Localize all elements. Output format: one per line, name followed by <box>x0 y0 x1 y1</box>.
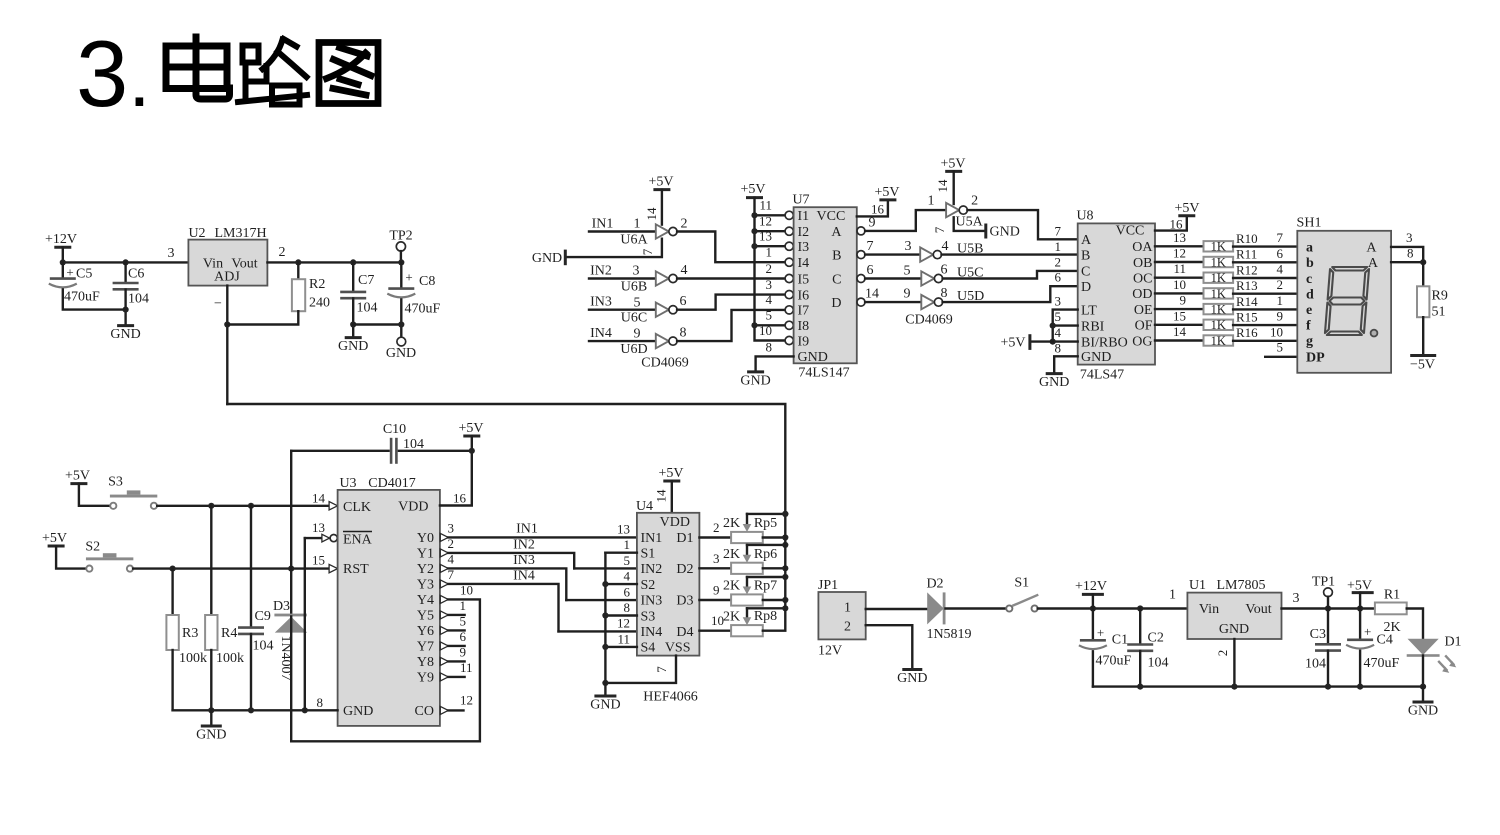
junction Rp5 wiper <box>782 511 788 517</box>
capacitor C4 plates <box>1346 640 1374 649</box>
U7 input bubble y=294.6 <box>785 291 793 299</box>
wire <box>763 536 786 538</box>
svg-text:RBI: RBI <box>1081 319 1105 334</box>
svg-text:4: 4 <box>1055 325 1062 340</box>
svg-text:I2: I2 <box>798 225 810 240</box>
svg-text:14: 14 <box>312 491 326 506</box>
wire <box>1155 324 1204 326</box>
svg-text:U1: U1 <box>1189 578 1206 593</box>
svg-text:2K: 2K <box>723 609 740 624</box>
svg-text:C6: C6 <box>128 267 144 282</box>
svg-text:5: 5 <box>904 264 911 279</box>
svg-text:I3: I3 <box>798 240 810 255</box>
IC U8 74LS47 body <box>1078 223 1155 364</box>
svg-text:IN1: IN1 <box>641 531 663 546</box>
svg-text:1K: 1K <box>1211 255 1226 269</box>
svg-text:A: A <box>1366 241 1377 256</box>
svg-text:C: C <box>832 272 841 287</box>
junction D1 bottom <box>1420 684 1426 690</box>
wire C2 bottom lead <box>1139 651 1141 687</box>
wire Rp6 wiper to rail <box>747 544 785 546</box>
diode D2 1N5819 <box>927 592 945 624</box>
svg-text:Rp5: Rp5 <box>754 516 777 531</box>
svg-text:OC: OC <box>1133 272 1152 287</box>
svg-text:9: 9 <box>904 287 911 302</box>
svg-text:Rp7: Rp7 <box>754 579 777 594</box>
wire S2 left lead <box>56 546 86 569</box>
svg-text:d: d <box>1306 288 1314 303</box>
wire <box>1233 639 1235 687</box>
svg-text:3: 3 <box>766 277 773 292</box>
svg-text:+5V: +5V <box>874 185 899 200</box>
Rp7 wiper arm <box>743 577 752 594</box>
svg-text:C7: C7 <box>358 273 374 288</box>
pin arrow Y9 <box>440 673 448 681</box>
svg-text:TP1: TP1 <box>1312 575 1335 590</box>
resistor R13 1K body <box>1204 288 1234 298</box>
wire C7 bottom lead <box>352 298 354 337</box>
wire U7 rail to input row y=231.2 <box>755 230 786 232</box>
wire U5A VCC stem <box>953 171 955 204</box>
junction ADJ/R2 <box>224 321 230 327</box>
Rp6 wiper arm <box>743 545 752 563</box>
pin arrow Y4 <box>440 595 448 603</box>
resistor R2 body <box>292 279 305 311</box>
svg-text:12V: 12V <box>818 644 842 659</box>
inverter U5C <box>921 271 942 285</box>
svg-text:C8: C8 <box>419 274 435 289</box>
wire C7 top lead <box>352 262 354 291</box>
wire C9 bottom lead <box>250 634 252 710</box>
wire U7 rail to input row y=325.3 <box>755 324 786 326</box>
power +5V above S2 <box>42 531 67 546</box>
power +12V (section A) <box>45 232 77 247</box>
svg-text:8: 8 <box>317 695 324 710</box>
wire C8 top lead <box>400 262 402 288</box>
wire IN4 into pin <box>559 630 637 632</box>
svg-text:2: 2 <box>844 619 851 634</box>
junction on U7 rail <box>751 212 757 218</box>
wire C10 left <box>291 450 388 452</box>
svg-text:GND: GND <box>1039 375 1069 390</box>
svg-text:+: + <box>66 265 73 280</box>
svg-text:2K: 2K <box>723 516 740 531</box>
svg-text:4: 4 <box>624 569 631 584</box>
svg-text:S2: S2 <box>85 540 100 555</box>
svg-text:1: 1 <box>1277 293 1284 308</box>
wire <box>763 514 786 631</box>
svg-text:3: 3 <box>633 264 640 279</box>
svg-text:LT: LT <box>1081 303 1097 318</box>
potentiometer Rp5 body <box>731 532 763 543</box>
wire C4 bottom lead <box>1359 651 1361 687</box>
svg-text:C5: C5 <box>76 267 92 282</box>
wire <box>440 436 472 506</box>
junction Rp8 wiper <box>782 605 788 611</box>
svg-text:1N4007: 1N4007 <box>278 635 293 680</box>
wire <box>1233 277 1297 279</box>
svg-text:1: 1 <box>1055 239 1062 254</box>
svg-text:3: 3 <box>1293 591 1300 606</box>
resistor R16 1K body <box>1204 335 1234 345</box>
svg-text:+5V: +5V <box>458 421 483 436</box>
power +5V above U5A <box>940 157 965 172</box>
svg-text:1K: 1K <box>1211 287 1226 301</box>
wire U4 VDD stem <box>671 481 673 513</box>
svg-text:CD4017: CD4017 <box>368 476 415 491</box>
stub Y5 <box>448 614 464 616</box>
wire <box>604 683 606 696</box>
svg-text:+5V: +5V <box>1174 201 1199 216</box>
wire <box>699 567 731 569</box>
svg-text:f: f <box>1306 318 1311 333</box>
wire <box>1155 261 1204 263</box>
svg-text:+: + <box>1097 625 1104 640</box>
wire <box>1233 261 1297 263</box>
title hanzi DIAN (electric) <box>166 37 230 99</box>
junction C5/C6 bottom <box>123 307 129 313</box>
svg-text:R16: R16 <box>1236 325 1258 340</box>
svg-text:U7: U7 <box>792 193 809 208</box>
svg-text:BI/RBO: BI/RBO <box>1081 335 1128 350</box>
svg-text:9: 9 <box>869 216 876 231</box>
svg-text:c: c <box>1306 272 1312 287</box>
svg-text:2K: 2K <box>723 579 740 594</box>
svg-text:R4: R4 <box>221 626 237 641</box>
resistor R4 body <box>205 615 217 650</box>
junction S2 <box>602 581 608 587</box>
svg-text:7: 7 <box>1277 230 1284 245</box>
svg-text:8: 8 <box>941 286 948 301</box>
svg-text:S3: S3 <box>641 609 656 624</box>
junction C3 bottom <box>1325 684 1331 690</box>
wire U7 rail to input row y=215.3 <box>755 214 786 216</box>
svg-text:104: 104 <box>1148 656 1169 671</box>
svg-text:1: 1 <box>844 600 851 615</box>
power +5V at U7 VCC <box>874 185 899 200</box>
svg-text:1K: 1K <box>1211 318 1226 332</box>
svg-text:16: 16 <box>871 202 885 217</box>
ground under U4 <box>590 696 620 713</box>
svg-text:2: 2 <box>681 217 688 232</box>
wire <box>1155 308 1204 310</box>
svg-text:−: − <box>214 297 222 312</box>
pin arrow CO <box>440 706 448 714</box>
svg-text:IN3: IN3 <box>590 295 612 310</box>
svg-text:U6A: U6A <box>620 233 648 248</box>
svg-text:2K: 2K <box>1383 620 1400 635</box>
svg-text:LM317H: LM317H <box>214 226 266 241</box>
wire strap to +5V tick <box>1031 340 1053 342</box>
svg-text:VCC: VCC <box>1116 224 1145 239</box>
svg-text:U3: U3 <box>339 476 356 491</box>
wire +5V stem <box>1359 593 1361 609</box>
svg-text:1: 1 <box>1169 588 1176 603</box>
wire <box>943 271 1078 279</box>
svg-text:2: 2 <box>1215 650 1230 657</box>
svg-text:R12: R12 <box>1236 262 1258 277</box>
svg-text:2: 2 <box>279 245 286 260</box>
svg-text:Y3: Y3 <box>417 578 434 593</box>
wire <box>1282 607 1375 609</box>
svg-text:U8: U8 <box>1076 209 1093 224</box>
svg-text:10: 10 <box>1270 324 1283 339</box>
svg-text:GND: GND <box>386 346 416 361</box>
svg-text:GND: GND <box>897 671 927 686</box>
svg-text:104: 104 <box>1305 657 1326 672</box>
wire <box>589 277 656 279</box>
test point TP2 <box>396 242 405 251</box>
svg-text:4: 4 <box>681 263 688 278</box>
wire <box>291 599 480 741</box>
wire <box>1391 247 1423 262</box>
wire U7 rail to input row y=246.2 <box>755 245 786 247</box>
wire <box>942 253 1078 255</box>
svg-text:+5V: +5V <box>648 175 673 190</box>
svg-text:8: 8 <box>1407 246 1414 261</box>
wire <box>1233 293 1297 295</box>
wire R9 top lead <box>1422 262 1424 286</box>
potentiometer Rp6 body <box>731 563 763 574</box>
resistor R9 body <box>1417 286 1429 317</box>
capacitor C7 plates <box>340 292 366 298</box>
wire S2 to U3 RST <box>133 567 329 569</box>
wire <box>1155 245 1204 247</box>
U7 output bubble y=278.5 <box>857 275 865 283</box>
svg-text:14: 14 <box>935 179 950 193</box>
pin arrow Y1 <box>440 549 448 557</box>
svg-text:5: 5 <box>634 296 641 311</box>
wire Rp5 wiper to rail <box>747 513 785 515</box>
svg-text:1: 1 <box>634 217 641 232</box>
potentiometer Rp7 body <box>731 594 763 605</box>
svg-text:2: 2 <box>1055 254 1062 269</box>
svg-text:IN3: IN3 <box>641 594 663 609</box>
pin arrow ENA <box>322 534 330 542</box>
svg-text:74LS147: 74LS147 <box>798 366 849 381</box>
junction Rp7 terminal <box>782 597 788 603</box>
svg-text:14: 14 <box>865 287 879 302</box>
svg-text:GND: GND <box>343 704 373 719</box>
svg-text:9: 9 <box>713 583 720 598</box>
junction VSS/S rail <box>602 680 608 686</box>
svg-text:I1: I1 <box>798 209 810 224</box>
svg-text:R2: R2 <box>309 277 325 292</box>
power +5V (PSU) <box>1347 579 1374 594</box>
svg-text:16: 16 <box>453 491 467 506</box>
svg-text:GND: GND <box>1081 350 1111 365</box>
wire <box>967 210 1077 239</box>
wire <box>677 310 785 341</box>
svg-text:2: 2 <box>971 194 978 209</box>
svg-text:a: a <box>1306 241 1313 256</box>
wire C6 top lead <box>124 262 126 282</box>
svg-text:12: 12 <box>1173 246 1186 261</box>
junction Rp5 terminal <box>782 534 788 540</box>
svg-text:D3: D3 <box>273 599 290 614</box>
svg-text:Y4: Y4 <box>417 593 434 608</box>
svg-text:I5: I5 <box>798 272 810 287</box>
wire R3 top lead <box>171 569 173 615</box>
wire <box>677 295 785 310</box>
svg-text:3: 3 <box>713 551 720 566</box>
wire <box>589 230 656 232</box>
svg-text:104: 104 <box>128 292 149 307</box>
svg-text:I8: I8 <box>798 319 810 334</box>
wire <box>946 607 1007 609</box>
svg-text:S1: S1 <box>1014 576 1029 591</box>
svg-text:R10: R10 <box>1236 231 1258 246</box>
junction R4 top <box>208 503 214 509</box>
svg-text:I4: I4 <box>798 256 810 271</box>
svg-text:3: 3 <box>1055 294 1062 309</box>
junction BI/RBO strap <box>1050 339 1056 345</box>
U7 output bubble y=230.9 <box>857 227 865 235</box>
wire R9 bottom lead <box>1422 317 1424 355</box>
svg-text:Y9: Y9 <box>417 671 434 686</box>
svg-text:b: b <box>1306 256 1314 271</box>
svg-text:CO: CO <box>415 704 434 719</box>
wire <box>699 536 731 538</box>
U7 input bubble y=215.3 <box>785 211 793 219</box>
svg-text:GND: GND <box>798 350 828 365</box>
svg-text:15: 15 <box>312 553 325 568</box>
wire C1 bottom lead <box>1092 651 1094 686</box>
svg-text:GND: GND <box>1408 704 1438 719</box>
U7 input bubble y=262.2 <box>785 258 793 266</box>
wire C5 top lead <box>62 262 64 278</box>
svg-text:104: 104 <box>357 301 378 316</box>
wire +12V stem <box>62 247 64 262</box>
wire <box>1155 216 1187 231</box>
svg-text:14: 14 <box>644 207 659 221</box>
wire C7-C8 bottom tie <box>353 323 401 325</box>
svg-text:7: 7 <box>867 239 874 254</box>
svg-text:470uF: 470uF <box>1364 656 1400 671</box>
svg-text:OE: OE <box>1134 303 1153 318</box>
svg-text:+5V: +5V <box>1000 335 1025 350</box>
svg-text:D4: D4 <box>676 625 693 640</box>
stub Y6 <box>448 629 464 631</box>
svg-text:S1: S1 <box>641 547 656 562</box>
svg-text:IN3: IN3 <box>513 553 535 568</box>
ground under D1 <box>1408 702 1438 719</box>
wire R4 top lead <box>210 506 212 615</box>
wire <box>756 356 794 371</box>
connector JP1 body <box>818 592 865 639</box>
power +5V above U4 <box>658 466 683 481</box>
stub Y9 <box>448 676 464 678</box>
wire <box>567 239 662 257</box>
svg-text:ADJ: ADJ <box>214 270 240 285</box>
wire D3 anode down <box>290 616 292 741</box>
stub CO <box>448 709 463 711</box>
junction +12V node <box>1090 605 1096 611</box>
capacitor C2 plates <box>1127 645 1153 651</box>
wire R4 bottom lead <box>210 650 212 710</box>
wire ENA lead <box>305 537 322 539</box>
wire Rp8 wiper to rail <box>747 607 785 609</box>
svg-text:IN2: IN2 <box>513 538 535 553</box>
wire S rail vertical <box>604 553 606 683</box>
svg-text:6: 6 <box>1277 246 1284 261</box>
wire <box>589 309 656 311</box>
svg-text:+5V: +5V <box>658 466 683 481</box>
svg-text:1: 1 <box>624 537 631 552</box>
junction Rp7 wiper <box>782 574 788 580</box>
svg-text:6: 6 <box>680 294 687 309</box>
+5V tick for U8 BI/RBO <box>1028 334 1031 350</box>
wire R3 bottom lead <box>171 650 173 710</box>
svg-text:VSS: VSS <box>665 641 691 656</box>
ground JP1 pin2 <box>897 670 927 687</box>
svg-text:D3: D3 <box>676 594 693 609</box>
wire <box>1233 340 1297 342</box>
wire C10 right <box>399 450 472 452</box>
svg-text:D2: D2 <box>926 577 943 592</box>
wire <box>1155 277 1204 279</box>
switch S1 <box>1006 595 1038 612</box>
svg-text:U2: U2 <box>188 226 205 241</box>
svg-text:+5V: +5V <box>1347 579 1372 594</box>
inverter U6C <box>656 303 677 317</box>
wire S3 left lead <box>79 484 110 506</box>
wire gnd stem <box>210 710 212 726</box>
wire RBI <box>1053 324 1078 326</box>
wire <box>699 630 731 632</box>
junction C6 top <box>123 259 129 265</box>
wire <box>1422 687 1424 701</box>
svg-text:C: C <box>1081 265 1090 280</box>
svg-text:11: 11 <box>617 631 630 646</box>
svg-text:13: 13 <box>617 522 630 537</box>
svg-text:VCC: VCC <box>817 209 846 224</box>
svg-text:Y0: Y0 <box>417 531 434 546</box>
wire IN3 into pin <box>566 599 637 601</box>
svg-text:Y6: Y6 <box>417 624 434 639</box>
resistor R11 1K body <box>1204 257 1234 267</box>
svg-text:+5V: +5V <box>65 469 90 484</box>
inverter U6B <box>656 271 677 285</box>
wire <box>1038 607 1188 609</box>
wire C2 top lead <box>1139 609 1141 645</box>
wire TP2 stem <box>400 251 402 262</box>
svg-text:6: 6 <box>1055 270 1062 285</box>
wire <box>448 568 566 600</box>
stub Y7 <box>448 645 464 647</box>
U7 input bubble y=246.2 <box>785 242 793 250</box>
svg-text:e: e <box>1306 303 1312 318</box>
svg-text:470uF: 470uF <box>1096 654 1132 669</box>
inverter U5A <box>946 203 967 217</box>
wire <box>865 253 920 255</box>
wire TP1 stem <box>1327 597 1329 609</box>
svg-text:13: 13 <box>312 520 325 535</box>
power +5V at U3 VDD <box>458 421 483 436</box>
svg-text:10: 10 <box>1173 277 1186 292</box>
junction C8 top <box>398 259 404 265</box>
capacitor C1 plates <box>1079 640 1107 649</box>
svg-text:4: 4 <box>766 292 773 307</box>
svg-text:GND: GND <box>1219 622 1249 637</box>
U7 input bubble y=231.2 <box>785 227 793 235</box>
svg-text:IN4: IN4 <box>590 326 612 341</box>
wire <box>1155 339 1204 341</box>
svg-text:14: 14 <box>1173 324 1187 339</box>
svg-text:IN1: IN1 <box>592 217 614 232</box>
svg-text:OD: OD <box>1132 287 1152 302</box>
svg-text:7: 7 <box>932 226 947 233</box>
